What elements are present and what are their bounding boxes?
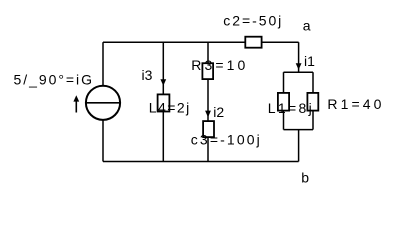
capacitor c2 [245,37,261,48]
svg-text:c2=-50j: c2=-50j [223,12,281,28]
wire left vertical [102,42,104,161]
svg-text:a: a [303,18,311,34]
wire bottom horizontal [103,161,299,163]
svg-text:5/_90°=iG: 5/_90°=iG [14,72,93,88]
svg-text:b: b [301,169,309,185]
svg-text:i1: i1 [304,53,315,69]
inductor L4 [158,94,170,111]
wire node b vertical [298,130,300,162]
wire node a vertical [298,42,300,72]
svg-text:R1=40: R1=40 [327,96,381,112]
wire L1 branch vertical [283,72,285,129]
source current arrow [73,95,79,112]
arrow i1 [296,63,302,70]
current source U (circle with bar) [85,86,121,120]
resistor R3 [202,63,213,79]
wire right split top horizontal [284,71,314,73]
svg-text:L1=8j: L1=8j [268,100,312,116]
wire branch i2 vertical [207,42,209,161]
wire R1 branch vertical [312,72,314,129]
capacitor c3 [203,121,214,137]
inductor L1 [278,93,289,111]
svg-text:R3=10: R3=10 [191,57,245,73]
resistor R1 [307,93,318,111]
svg-text:i2: i2 [213,104,224,120]
svg-text:i3: i3 [142,67,153,83]
wire top horizontal [103,41,299,43]
wire right join bottom horizontal [284,129,314,131]
arrow i3 [160,79,166,86]
wire branch i3 vertical [162,42,164,161]
arrow i2 [205,111,211,118]
svg-text:L4=2j: L4=2j [149,99,190,115]
